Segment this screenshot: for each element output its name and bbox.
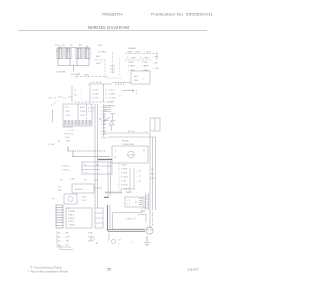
svg-text:△: △ (143, 78, 145, 81)
svg-text:HTR: HTR (66, 141, 71, 143)
svg-text:TIMER: TIMER (125, 192, 132, 194)
svg-text:1 3 5 7: 1 3 5 7 (88, 111, 95, 113)
svg-text:✱: ✱ (58, 140, 60, 143)
svg-text:·: · (161, 47, 162, 49)
svg-text:BK: BK (151, 173, 154, 175)
svg-text:M: M (143, 150, 145, 152)
svg-text:RD: RD (151, 169, 155, 171)
svg-text:{=: {= (86, 118, 89, 120)
svg-text:LT SW: LT SW (48, 144, 54, 146)
svg-text:LID: LID (58, 186, 62, 188)
svg-text:6 ORG —: 6 ORG — (62, 170, 72, 172)
svg-text:1 3: 1 3 (127, 200, 131, 202)
svg-text:— 10: — 10 (136, 170, 142, 172)
svg-text:•: • (136, 192, 137, 194)
svg-text:— 12: — 12 (136, 180, 142, 182)
svg-text:12 BK: 12 BK (92, 90, 98, 92)
svg-text:2 4: 2 4 (127, 204, 131, 206)
svg-text:— RD: — RD (152, 57, 158, 59)
svg-text:4 TN: 4 TN (80, 115, 85, 117)
svg-text:·: · (161, 71, 162, 73)
svg-text:SW: SW (58, 190, 61, 192)
svg-text:CON FAN: CON FAN (56, 71, 66, 74)
svg-text:7 GN 8: 7 GN 8 (68, 225, 75, 227)
svg-text:6 GRN: 6 GRN (121, 184, 128, 186)
svg-text:— BLK: — BLK (144, 52, 151, 54)
svg-text:4 BLU: 4 BLU (128, 62, 134, 64)
svg-text:3 TAN: 3 TAN (142, 69, 148, 72)
svg-text:AC: AC (79, 43, 82, 46)
svg-text:9 — RED: 9 — RED (140, 58, 150, 60)
svg-text:— BK: — BK (152, 63, 158, 65)
svg-text:1 3 5: 1 3 5 (66, 208, 71, 210)
svg-text:2 WHT: 2 WHT (121, 168, 128, 170)
svg-text:GUARD: GUARD (128, 47, 136, 50)
svg-text:— 4 YEL: — 4 YEL (106, 101, 115, 103)
svg-text:25.9: 25.9 (66, 51, 71, 53)
svg-text:1P: 1P (70, 44, 73, 46)
svg-text:Publication No. 5995520011: Publication No. 5995520011 (151, 13, 213, 17)
svg-text:GND: GND (88, 240, 93, 242)
svg-text:L1: L1 (74, 90, 77, 92)
svg-text:≈: ≈ (86, 50, 88, 53)
svg-text:ORN — WHT: ORN — WHT (127, 52, 141, 54)
svg-text:14 OR: 14 OR (92, 98, 99, 100)
svg-text:• • •: • • • (84, 172, 88, 174)
svg-text:- 9 TN: - 9 TN (100, 134, 106, 136)
svg-text:3 WH 4: 3 WH 4 (68, 218, 76, 220)
svg-text:1 BLK: 1 BLK (121, 164, 127, 166)
svg-text:+: + (118, 131, 120, 133)
svg-text:+ SOL: + SOL (64, 137, 71, 139)
svg-text:- 10 PK: - 10 PK (100, 138, 108, 140)
svg-text:+: + (138, 61, 140, 63)
svg-text:© Functioning Parts: © Functioning Parts (30, 266, 63, 270)
svg-text:WH: WH (94, 180, 98, 182)
svg-text:M: M (135, 202, 137, 204)
svg-text:115: 115 (55, 44, 59, 46)
svg-text:WIRING DIAGRAM: WIRING DIAGRAM (88, 25, 129, 30)
svg-text:A4 —— RD: A4 —— RD (58, 243, 69, 246)
svg-text:R: R (115, 157, 117, 159)
svg-text:N2: N2 (74, 95, 78, 97)
svg-text:— OR: — OR (140, 207, 146, 209)
svg-text:RC SC: RC SC (128, 131, 135, 133)
svg-text:3 RED: 3 RED (121, 172, 128, 174)
svg-text:FRS26ZTH-: FRS26ZTH- (102, 13, 123, 17)
svg-text:BLK: BLK (96, 56, 101, 58)
svg-text:GRN: GRN (84, 74, 89, 76)
svg-text:·: · (161, 65, 162, 67)
svg-text:1 BK 2: 1 BK 2 (68, 214, 75, 216)
svg-text:ICE: ICE (65, 107, 69, 109)
svg-text:3 GN: 3 GN (65, 115, 70, 117)
svg-text:MKR: MKR (80, 107, 85, 109)
svg-text:25: 25 (107, 267, 111, 271)
svg-text:PK: PK (60, 179, 63, 181)
svg-text:T-STAT: T-STAT (68, 210, 76, 213)
svg-text:··: ·· (150, 93, 152, 95)
svg-text:12: 12 (119, 95, 122, 97)
svg-text:·: · (121, 151, 122, 153)
svg-text:LINE: LINE (88, 232, 93, 234)
svg-text:S: S (115, 150, 117, 152)
svg-text:7 BRN: 7 BRN (142, 66, 149, 68)
svg-text:A3 —— GN: A3 —— GN (58, 239, 69, 242)
svg-text:— —: — — (143, 131, 149, 133)
svg-text:2 4 6 8: 2 4 6 8 (88, 107, 95, 109)
svg-text:DEFROST: DEFROST (125, 188, 136, 190)
svg-text:ADC: ADC (134, 75, 139, 78)
svg-text:4 PNK • 2: 4 PNK • 2 (126, 218, 136, 220)
svg-text:— 1 BLK: — 1 BLK (106, 89, 115, 91)
svg-text:— 11: — 11 (136, 175, 142, 177)
svg-text:··: ·· (150, 89, 152, 91)
svg-text:5 YEL: 5 YEL (142, 62, 149, 64)
svg-text:— 3 ORG: — 3 ORG (106, 97, 116, 99)
svg-text:2 WH: 2 WH (80, 111, 86, 113)
svg-text:+: + (104, 141, 106, 143)
svg-text:1 BK: 1 BK (65, 111, 70, 113)
svg-text:LT GRN: LT GRN (98, 52, 106, 54)
svg-text:—: — (80, 90, 83, 92)
svg-text:·: · (162, 124, 163, 126)
svg-text:60: 60 (62, 44, 65, 46)
svg-text:·: · (161, 59, 162, 61)
svg-text:AUGER: AUGER (75, 188, 83, 191)
svg-text:5 YEL: 5 YEL (121, 180, 127, 182)
svg-text:5 RD 6: 5 RD 6 (68, 221, 75, 223)
svg-text:10 WH: 10 WH (92, 94, 99, 96)
svg-text:* Non-Illuminated Path: * Non-Illuminated Path (28, 269, 69, 273)
svg-text:25.6: 25.6 (56, 51, 61, 53)
svg-text:WHT: WHT (96, 63, 102, 65)
svg-text:││: ││ (131, 241, 134, 244)
svg-text:+: + (136, 67, 138, 69)
svg-text:A2 —— WH: A2 —— WH (58, 235, 70, 238)
svg-text:GY: GY (84, 179, 88, 181)
svg-text:CB: CB (118, 239, 122, 241)
svg-text:WH: WH (98, 45, 102, 47)
svg-text:WH: WH (151, 178, 155, 180)
svg-text:5: 5 (136, 90, 138, 92)
svg-text:2 ORN: 2 ORN (128, 70, 135, 72)
svg-text:6 BR: 6 BR (70, 178, 75, 180)
svg-text:•: • (50, 208, 51, 210)
svg-text:—: — (80, 94, 83, 96)
svg-text:·: · (161, 53, 162, 55)
svg-text:—: — (80, 98, 83, 100)
svg-text:— WH: — WH (152, 68, 159, 70)
svg-text:- 7 BR: - 7 BR (100, 127, 106, 129)
svg-text:COMP: COMP (128, 155, 135, 157)
svg-text:4 ORN: 4 ORN (121, 176, 128, 178)
svg-text:SOL: SOL (82, 200, 87, 202)
svg-text:J1 J2 J3 J4: J1 J2 J3 J4 (90, 82, 102, 84)
svg-text:RELAY: RELAY (122, 140, 130, 143)
svg-text:2: 2 (136, 94, 138, 96)
svg-text:A1 —— BK: A1 —— BK (58, 231, 69, 234)
svg-text:DEF: DEF (134, 80, 139, 82)
svg-text:••: •• (84, 207, 86, 209)
svg-text:4 GRN —: 4 GRN — (62, 166, 72, 168)
svg-text:-: - (96, 117, 97, 119)
svg-text:MTR: MTR (82, 196, 87, 198)
svg-text:— BK: — BK (140, 211, 146, 213)
svg-text:1 2 3 4: 1 2 3 4 (68, 130, 75, 132)
svg-text:·: · (162, 128, 163, 130)
svg-text:il: il (78, 51, 79, 53)
svg-text:··: ·· (150, 97, 152, 99)
svg-text:···: ··· (115, 87, 117, 89)
svg-text:PK: PK (52, 198, 55, 200)
svg-text:WTR VLV: WTR VLV (64, 134, 74, 136)
svg-text:·: · (138, 158, 139, 160)
svg-text:8 — WHT: 8 — WHT (127, 58, 137, 60)
svg-text:••: •• (118, 243, 120, 245)
svg-text:10/07: 10/07 (187, 268, 199, 272)
svg-text:6 GRN: 6 GRN (128, 66, 135, 68)
svg-text:— 2 WHT: — 2 WHT (106, 93, 116, 95)
svg-text:✱: ✱ (96, 242, 98, 245)
